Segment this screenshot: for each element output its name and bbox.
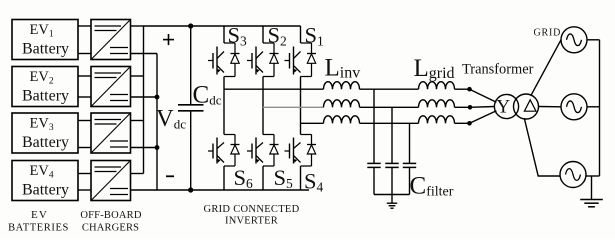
wire battery3-charger3 top <box>78 120 91 122</box>
svg-text:Vdc: Vdc <box>156 105 186 132</box>
battery EV3 box <box>12 113 78 153</box>
wire collector drop S1 <box>300 26 302 43</box>
label S3 <box>228 23 248 49</box>
junction top rail / Cdc branch <box>188 23 193 28</box>
label Transformer <box>462 62 534 78</box>
wire phase A Linv to Lgrid <box>360 88 419 90</box>
inductor Lgrid phase A <box>419 82 455 90</box>
svg-text:Lgrid: Lgrid <box>414 55 455 82</box>
wire transformer to grid source top <box>531 40 561 96</box>
label Linv <box>325 55 361 82</box>
wire phase A inverter to Linv <box>224 88 324 90</box>
svg-text:Battery: Battery <box>22 134 69 151</box>
svg-text:EV2: EV2 <box>30 69 54 87</box>
AC source G3 (grid bottom) <box>560 162 586 188</box>
svg-text:INVERTER: INVERTER <box>225 216 278 227</box>
off-board charger 2 (DC-DC converter) <box>91 67 131 107</box>
transistor S6 (IGBT with antiparallel diode) <box>208 135 240 167</box>
wire battery4-charger4 bottom <box>78 189 91 191</box>
wire phase C Linv to Lgrid <box>360 122 419 124</box>
label Y (wye winding) <box>496 96 510 117</box>
label GRID <box>534 28 562 39</box>
svg-text:Transformer: Transformer <box>462 62 534 78</box>
capacitor Cfilter phase A <box>367 163 380 167</box>
wire G3 to grid bus <box>586 175 600 177</box>
ground (filter) <box>387 203 397 208</box>
wire phase B Lgrid to transformer node <box>455 106 471 108</box>
wire collector drop S6 <box>223 89 225 134</box>
battery EV4 box <box>12 161 78 201</box>
wire phase C Lgrid to transformer node <box>455 122 470 124</box>
positive DC bus (vertical) <box>143 26 145 174</box>
node phase A transformer side <box>467 87 472 92</box>
wire emitter S2 to phase node <box>262 77 264 108</box>
wire grid ground stem <box>591 176 593 199</box>
wire transformer to grid source middle <box>539 106 562 108</box>
wire phase B Linv to Lgrid <box>360 106 419 108</box>
svg-text:EV: EV <box>31 209 48 221</box>
inductor Lgrid phase C <box>419 116 455 124</box>
transistor S4 (IGBT with antiparallel diode) <box>285 135 317 167</box>
transistor S3 (IGBT with antiparallel diode) <box>208 43 240 77</box>
wire charger4 + output <box>131 173 144 175</box>
inductor Linv phase A <box>324 82 360 90</box>
caption EV BATTERIES <box>8 209 69 233</box>
capacitor Cdc wire top <box>190 26 192 105</box>
wire phase B inverter to Linv <box>263 106 324 108</box>
wire collector drop S5 <box>262 107 264 134</box>
wire charger2 - output <box>131 96 158 98</box>
wire Cfilter phase C to common <box>409 167 411 194</box>
wire emitter S6 to bottom rail <box>223 166 225 190</box>
wire charger4 - output to bottom rail <box>131 189 158 191</box>
svg-text:S4: S4 <box>304 169 324 195</box>
caption GRID CONNECTED INVERTER <box>203 204 299 227</box>
transformer U1 secondary winding (delta) <box>514 94 539 119</box>
ground (grid) <box>580 200 603 207</box>
wire Cfilter phase A to common <box>373 167 375 194</box>
svg-text:EV1: EV1 <box>30 22 54 40</box>
label Cfilter <box>410 173 454 200</box>
off-board charger 1 (DC-DC converter) <box>91 20 131 60</box>
node phase B transformer side <box>468 105 473 110</box>
battery EV1 label <box>22 22 69 58</box>
transistor S5 (IGBT with antiparallel diode) <box>247 135 279 167</box>
svg-text:Cdc: Cdc <box>193 81 222 108</box>
wire G1 to grid bus <box>587 39 600 41</box>
transistor S1 (IGBT with antiparallel diode) <box>285 43 317 77</box>
svg-text:BATTERIES: BATTERIES <box>8 222 69 233</box>
wire charger1 + output to top rail <box>131 25 144 27</box>
wire phase A Lgrid to transformer node <box>455 88 470 90</box>
wire charger3 + output <box>131 120 144 122</box>
svg-text:S5: S5 <box>274 165 294 191</box>
wire emitter S4 to bottom rail <box>300 166 302 190</box>
battery EV3 label <box>22 116 69 152</box>
wire charger1 - output to negative bus <box>131 53 158 55</box>
caption OFF-BOARD CHARGERS <box>80 210 142 233</box>
wire battery3-charger3 bottom <box>78 147 91 149</box>
grid bus (vertical right) <box>599 40 601 176</box>
inductor Linv phase B <box>324 100 360 108</box>
label S6 <box>234 165 254 191</box>
transistor S2 (IGBT with antiparallel diode) <box>247 43 279 77</box>
svg-text:S1: S1 <box>305 23 324 49</box>
wire Cfilter phase B to common <box>391 167 393 194</box>
AC source G2 (grid middle) <box>561 94 587 120</box>
node phase C transformer side <box>467 121 472 126</box>
wire fan-in phase B to transformer <box>470 106 494 109</box>
junction charger2 - on negative bus <box>155 95 160 100</box>
battery EV4 label <box>22 163 69 199</box>
label Cdc <box>193 81 222 108</box>
wire G2 to grid bus <box>587 106 600 108</box>
label S1 <box>305 23 324 49</box>
label S4 <box>304 169 324 195</box>
wire battery2-charger2 bottom <box>78 96 91 98</box>
label S5 <box>274 165 294 191</box>
capacitor Cdc wire bottom <box>190 111 192 190</box>
svg-text:EV3: EV3 <box>30 116 54 134</box>
wire Cfilter common bus <box>374 194 410 196</box>
svg-text:Battery: Battery <box>22 41 69 58</box>
svg-text:EV4: EV4 <box>30 163 54 181</box>
capacitor Cfilter phase C <box>403 163 416 167</box>
svg-text:OFF-BOARD: OFF-BOARD <box>80 210 142 221</box>
svg-text:GRID: GRID <box>534 28 562 39</box>
svg-text:S6: S6 <box>234 165 254 191</box>
svg-text:Linv: Linv <box>325 55 361 82</box>
wire Cfilter tap phase B <box>391 107 393 163</box>
wire Cfilter tap phase A <box>373 89 375 163</box>
junction bottom rail / Cdc branch <box>188 187 193 192</box>
svg-text:Battery: Battery <box>22 182 69 199</box>
label Vdc <box>156 105 186 132</box>
bottom DC rail (-) <box>156 189 309 191</box>
wire collector drop S3 <box>223 26 225 43</box>
wire battery1-charger1 bottom <box>78 53 91 55</box>
wire transformer to grid source bottom (diagonal) <box>524 118 560 176</box>
wire phase C inverter to Linv <box>301 122 324 124</box>
wire emitter S3 to phase node <box>223 77 225 90</box>
junction charger3 - on negative bus <box>155 145 160 150</box>
wire collector drop S2 <box>262 26 264 43</box>
plus sign (+) DC link <box>163 34 174 45</box>
wire battery1-charger1 top <box>78 25 91 27</box>
svg-text:Cfilter: Cfilter <box>410 173 454 200</box>
wire emitter S1 to phase node <box>300 77 302 124</box>
svg-text:CHARGERS: CHARGERS <box>82 222 139 233</box>
minus sign (-) DC link <box>166 175 174 177</box>
label S2 <box>268 23 287 49</box>
wire charger2 + output <box>131 75 144 77</box>
label Lgrid <box>414 55 455 82</box>
delta symbol <box>524 100 536 111</box>
transformer U1 primary winding (Y) <box>494 94 518 118</box>
wire emitter S5 to bottom rail <box>262 166 264 190</box>
battery EV2 label <box>22 69 69 105</box>
off-board charger 3 (DC-DC converter) <box>91 113 131 153</box>
off-board charger 4 (DC-DC converter) <box>91 161 131 201</box>
wire fan-in phase C to transformer <box>470 111 497 124</box>
battery EV1 box <box>12 20 78 60</box>
svg-text:GRID CONNECTED: GRID CONNECTED <box>203 204 299 215</box>
wire charger3 - output <box>131 147 158 149</box>
inductor Lgrid phase B <box>419 100 455 108</box>
negative DC bus (vertical) <box>156 54 158 191</box>
wire collector drop S4 <box>300 123 302 134</box>
capacitor Cfilter phase B <box>385 163 398 167</box>
svg-text:Battery: Battery <box>22 88 69 105</box>
wire battery4-charger4 top <box>78 173 91 175</box>
wire Cfilter ground stem <box>391 195 393 203</box>
wire Cfilter tap phase C <box>409 123 411 163</box>
svg-text:Y: Y <box>496 96 510 117</box>
capacitor Cdc plates <box>178 105 204 111</box>
wire battery2-charger2 top <box>78 75 91 77</box>
wire fan-in phase A to transformer <box>470 89 497 102</box>
top DC rail (+) <box>143 25 301 27</box>
AC source G1 (grid top) <box>561 27 587 53</box>
battery EV2 box <box>12 67 78 107</box>
inductor Linv phase C <box>324 116 360 124</box>
